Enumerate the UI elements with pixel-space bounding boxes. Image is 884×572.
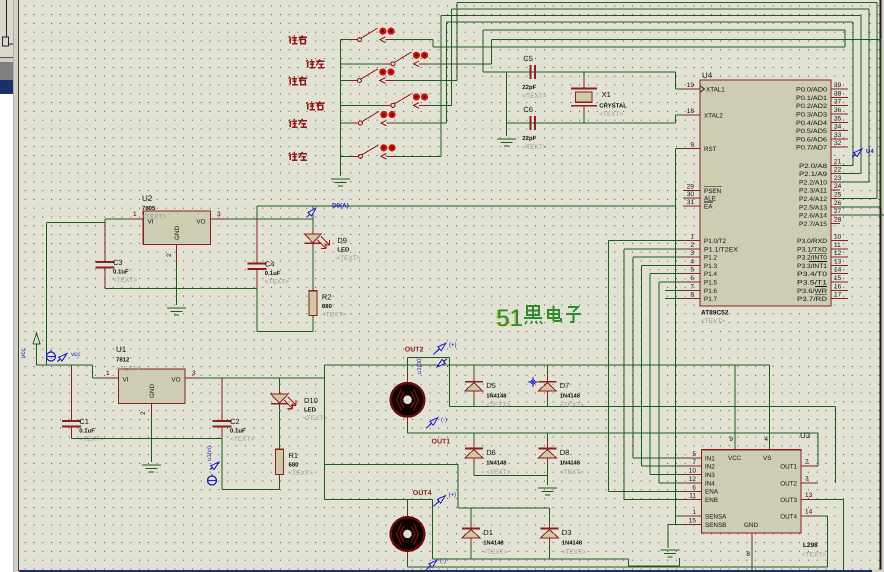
U3 pin 1 SENSA bbox=[683, 509, 701, 516]
left UI: navy block bbox=[0, 80, 13, 94]
capacitor C4 bbox=[247, 259, 289, 285]
svg-text:26: 26 bbox=[834, 200, 842, 207]
wire: OUT1 rail bbox=[407, 433, 817, 466]
svg-text:XTAL2: XTAL2 bbox=[704, 112, 723, 119]
svg-text:C4: C4 bbox=[265, 259, 275, 268]
svg-text:22pF: 22pF bbox=[522, 135, 536, 142]
svg-text:<TEXT>: <TEXT> bbox=[560, 469, 584, 476]
wire: switch ground bus vertical bbox=[340, 40, 342, 176]
svg-text:<TEXT>: <TEXT> bbox=[289, 470, 313, 477]
svg-text:(+): (+) bbox=[449, 492, 457, 499]
motor M1 bbox=[391, 374, 425, 425]
resistor R2 bbox=[309, 291, 346, 319]
wire: SENSA SENSB join bbox=[668, 516, 683, 548]
svg-text:P1.1/T2EX: P1.1/T2EX bbox=[704, 246, 739, 253]
svg-text:22pF: 22pF bbox=[522, 84, 536, 91]
U3 pin 4 VS bbox=[764, 436, 769, 450]
U4 pin 27 P2.6/A14 bbox=[799, 208, 842, 220]
svg-text:1N4148: 1N4148 bbox=[486, 460, 507, 467]
svg-text:P2.1/A9: P2.1/A9 bbox=[799, 171, 828, 178]
svg-text:P0.0/AD0: P0.0/AD0 bbox=[796, 87, 828, 94]
capacitor C1 bbox=[62, 417, 104, 443]
svg-text:7: 7 bbox=[690, 283, 694, 290]
U4 pin 4 P1.3 bbox=[683, 258, 717, 270]
svg-text:P3.5/T1: P3.5/T1 bbox=[797, 280, 828, 287]
svg-text:1N4148: 1N4148 bbox=[486, 393, 507, 400]
U1 pin 1 bbox=[101, 370, 118, 378]
wire: U1 gnd down bbox=[151, 416, 153, 462]
svg-text:2: 2 bbox=[166, 253, 173, 257]
U3 pin 15 SENSB bbox=[683, 518, 701, 525]
capacitor C3 bbox=[96, 258, 138, 284]
svg-text:39: 39 bbox=[834, 82, 842, 89]
wire: U3 GND down bbox=[751, 546, 753, 571]
U4 pin 7 P1.6 bbox=[683, 283, 717, 295]
wire: 5V rail to EA pin31 bbox=[257, 205, 676, 207]
svg-text:16: 16 bbox=[834, 283, 842, 290]
svg-text:0.1uF: 0.1uF bbox=[265, 270, 281, 277]
U1 pin 3 bbox=[185, 370, 202, 378]
svg-text:C6: C6 bbox=[523, 105, 533, 114]
probe circle near vcc bbox=[46, 350, 55, 361]
probe arrow OUT3 bbox=[426, 560, 437, 570]
svg-text:9: 9 bbox=[690, 142, 694, 149]
ground under D6/D8 bbox=[538, 488, 557, 495]
svg-text:VO: VO bbox=[171, 377, 180, 384]
wire: D1 leads bbox=[470, 508, 472, 529]
svg-text:<TEXT>: <TEXT> bbox=[142, 214, 166, 221]
switch K5 (row5) bbox=[341, 111, 447, 126]
wire: P1.0 to U3 bbox=[609, 241, 683, 492]
probe arrow vcc bbox=[57, 354, 67, 362]
svg-text:11: 11 bbox=[834, 242, 841, 249]
U3 pin 12 IN4 bbox=[683, 476, 701, 483]
ground under U1 bbox=[142, 465, 161, 472]
svg-text:VS: VS bbox=[763, 455, 771, 462]
svg-text:D1: D1 bbox=[483, 528, 493, 537]
svg-text:0.1uF: 0.1uF bbox=[230, 428, 246, 435]
wire: OUT2 jog over rail bbox=[407, 358, 449, 407]
wire: D1-D3 bottom rail bbox=[433, 558, 680, 566]
svg-text:D7: D7 bbox=[560, 381, 570, 390]
svg-text:18: 18 bbox=[687, 108, 695, 115]
U3 pin 8 GND bbox=[746, 533, 752, 558]
svg-text:4: 4 bbox=[764, 436, 768, 443]
svg-text:<TEXT>: <TEXT> bbox=[265, 278, 289, 285]
svg-text:D5: D5 bbox=[486, 381, 496, 390]
svg-text:AT89C52: AT89C52 bbox=[701, 310, 729, 317]
svg-text:ALE: ALE bbox=[704, 196, 716, 203]
svg-text:D3: D3 bbox=[562, 528, 572, 537]
U4 pin 9 RST bbox=[683, 142, 717, 154]
svg-text:P1.0/T2: P1.0/T2 bbox=[704, 238, 727, 245]
U4 pin 15 P3.5/T1 bbox=[797, 275, 848, 287]
wire: +12V motor rail bbox=[324, 364, 769, 366]
probe arrow OUT1 bbox=[426, 418, 438, 429]
wire: 12V riser x=324 bbox=[323, 365, 325, 499]
svg-text:D9: D9 bbox=[337, 236, 347, 245]
svg-text:9: 9 bbox=[729, 436, 733, 443]
U4 pin 39 P0.0/AD0 bbox=[796, 82, 848, 94]
probe arrow at D9 net bbox=[307, 208, 316, 217]
svg-text:<TEXT>: <TEXT> bbox=[79, 436, 103, 443]
left UI: light gap bbox=[0, 58, 13, 62]
U4 pin 30 ALE bbox=[683, 191, 716, 203]
wire: P1.1 to U3 bbox=[624, 249, 683, 500]
svg-text:P1.6: P1.6 bbox=[704, 288, 717, 295]
svg-text:3: 3 bbox=[192, 370, 196, 377]
wire: D9 drop bbox=[312, 206, 314, 234]
U3 pin 6 ENA bbox=[683, 484, 701, 491]
ground for SENS bbox=[661, 550, 680, 557]
U4 pin 28 P2.7/A15 bbox=[799, 216, 842, 228]
svg-text:P0.5/AD5: P0.5/AD5 bbox=[796, 128, 828, 135]
U4 pin 16 P3.6/WR bbox=[797, 283, 848, 295]
terminal VCC arrow bbox=[33, 333, 40, 365]
svg-text:19: 19 bbox=[687, 82, 695, 89]
ground for C5/C6 bbox=[497, 139, 516, 146]
svg-text:680: 680 bbox=[289, 462, 300, 469]
svg-text:vcc: vcc bbox=[71, 351, 80, 358]
svg-text:51: 51 bbox=[497, 305, 524, 332]
svg-text:13: 13 bbox=[834, 258, 842, 265]
svg-text:25: 25 bbox=[834, 192, 842, 199]
svg-text:<TEXT>: <TEXT> bbox=[701, 318, 725, 325]
svg-text:3: 3 bbox=[805, 476, 809, 483]
svg-text:u1(vi): u1(vi) bbox=[206, 446, 213, 461]
U4 pin 25 P2.4/A12 bbox=[799, 192, 842, 204]
wire: cross rail to D1/D3 bbox=[324, 465, 549, 508]
svg-text:1: 1 bbox=[133, 211, 137, 218]
svg-text:P1.5: P1.5 bbox=[704, 280, 717, 287]
svg-text:17: 17 bbox=[834, 292, 842, 299]
diode D6 bbox=[465, 441, 483, 466]
svg-text:L298: L298 bbox=[803, 542, 818, 549]
wire: P1.3 to U3 bbox=[642, 265, 684, 466]
svg-text:P1.4: P1.4 bbox=[704, 271, 717, 278]
U4 pin 34 P0.5/AD5 bbox=[796, 124, 848, 136]
svg-text:P0.2/AD2: P0.2/AD2 bbox=[796, 103, 828, 110]
U4 pin 33 P0.6/AD6 bbox=[796, 132, 848, 144]
wire: row6 to P2.1 nest bbox=[441, 16, 861, 174]
svg-text:u1(00): u1(00) bbox=[416, 357, 423, 374]
svg-text:<TEXT>: <TEXT> bbox=[113, 277, 137, 284]
U3 pin 10 IN3 bbox=[683, 468, 701, 475]
svg-text:SENSB: SENSB bbox=[705, 522, 726, 529]
svg-text:EA: EA bbox=[704, 203, 713, 210]
svg-text:28: 28 bbox=[834, 216, 842, 223]
svg-text:P3.7/RD: P3.7/RD bbox=[797, 296, 828, 303]
diode D1 bbox=[462, 521, 480, 546]
labels D3 bbox=[562, 528, 586, 556]
svg-text:ENB: ENB bbox=[705, 497, 718, 504]
probe circle left mid bbox=[208, 474, 217, 485]
svg-text:SENSA: SENSA bbox=[705, 514, 727, 521]
svg-text:7: 7 bbox=[692, 459, 696, 466]
wire: U2 VO to C4/D9 bbox=[228, 206, 313, 219]
svg-text:PSEN: PSEN bbox=[704, 188, 722, 195]
svg-text:P2.5/A13: P2.5/A13 bbox=[799, 204, 828, 211]
svg-text:X1: X1 bbox=[602, 90, 611, 99]
driver U3 L298 body bbox=[701, 431, 826, 559]
U4 pin 18 XTAL2 bbox=[683, 108, 723, 120]
svg-text:P3.4/T0: P3.4/T0 bbox=[797, 271, 828, 278]
wire: C6 net XTAL2 bbox=[507, 115, 683, 123]
diode D3 bbox=[541, 521, 559, 546]
svg-text:<TEXT>: <TEXT> bbox=[522, 93, 546, 100]
diode D8 bbox=[538, 441, 556, 466]
svg-text:CRYSTAL: CRYSTAL bbox=[599, 103, 627, 110]
svg-text:10: 10 bbox=[689, 468, 697, 475]
labels D6 bbox=[486, 448, 510, 476]
label 往右 switch K3 bbox=[289, 76, 307, 84]
wire: P1.4 to U3 bbox=[650, 274, 683, 475]
svg-text:0.1uF: 0.1uF bbox=[79, 428, 95, 435]
U4 pin 8 P1.7 bbox=[683, 292, 717, 304]
svg-text:D9(A): D9(A) bbox=[332, 203, 349, 210]
svg-text:1: 1 bbox=[106, 370, 110, 377]
wire: D9 cathode to R2 bbox=[312, 250, 314, 291]
svg-text:<TEXT>: <TEXT> bbox=[322, 312, 346, 319]
labels D8 bbox=[560, 448, 584, 476]
svg-text:GND: GND bbox=[149, 384, 156, 398]
U4 pin 23 P2.2/A10 bbox=[799, 175, 842, 187]
svg-text:<TEXT>: <TEXT> bbox=[486, 469, 510, 476]
svg-text:IN4: IN4 bbox=[705, 480, 715, 487]
wire: vcc feed with jog to U1 pin1 bbox=[37, 365, 102, 378]
svg-text:D6: D6 bbox=[486, 448, 496, 457]
wire: RST riser down to SENSA bbox=[675, 149, 683, 517]
U3 pin 7 IN2 bbox=[683, 459, 701, 466]
wire: U1 VO rail bbox=[202, 377, 324, 379]
svg-text:P0.4/AD4: P0.4/AD4 bbox=[796, 120, 828, 127]
svg-text:3: 3 bbox=[217, 211, 221, 218]
U3 output pin 13 bbox=[801, 492, 818, 500]
switch K3 (row3) bbox=[341, 68, 458, 83]
svg-text:3: 3 bbox=[690, 250, 694, 257]
svg-text:8: 8 bbox=[746, 551, 750, 558]
U4 pin 17 P3.7/RD bbox=[797, 292, 848, 304]
svg-text:OUT4: OUT4 bbox=[413, 490, 432, 497]
svg-text:1N4148: 1N4148 bbox=[483, 540, 504, 547]
ground for switch bus bbox=[331, 179, 350, 186]
svg-text:P1.7: P1.7 bbox=[704, 296, 717, 303]
U3 pin 9 VCC bbox=[729, 436, 735, 450]
wire: row4 to P2.2 nest bbox=[452, 9, 869, 182]
U4 pin 38 P0.1/AD1 bbox=[796, 90, 848, 102]
svg-text:35: 35 bbox=[834, 115, 842, 122]
wire: row5 to P2.0 nest bbox=[447, 22, 854, 165]
svg-text:1N4148: 1N4148 bbox=[560, 393, 581, 400]
svg-text:OUT3: OUT3 bbox=[780, 497, 797, 504]
labels D5 bbox=[486, 381, 510, 409]
svg-text:29: 29 bbox=[687, 184, 695, 191]
mcu U4 AT89C52 body bbox=[700, 71, 831, 325]
left UI: white column bbox=[0, 94, 13, 572]
switch K2 (row2) bbox=[341, 52, 492, 67]
svg-text:OUT4: OUT4 bbox=[780, 514, 797, 521]
wire: D8 leads bbox=[546, 433, 548, 449]
U4 pin 12 P3.2/INT0 bbox=[797, 250, 848, 262]
svg-text:U4: U4 bbox=[702, 71, 713, 80]
U4 pin 31 EA bbox=[683, 199, 713, 211]
crystal X1 bbox=[571, 72, 627, 123]
svg-text:5: 5 bbox=[692, 451, 696, 458]
svg-text:33: 33 bbox=[834, 132, 842, 139]
wire: D7 leads bbox=[546, 365, 548, 381]
U4 pin 19 XTAL1 bbox=[683, 82, 725, 94]
svg-text:P2.4/A12: P2.4/A12 bbox=[799, 196, 828, 203]
left UI: grey block bbox=[0, 62, 13, 80]
svg-text:VO: VO bbox=[196, 219, 205, 226]
svg-text:<TEXT>: <TEXT> bbox=[599, 111, 623, 118]
svg-text:6: 6 bbox=[692, 484, 696, 491]
blue cross marker bbox=[528, 377, 538, 387]
U4 pin 36 P0.3/AD3 bbox=[796, 107, 848, 119]
motor M2 bbox=[391, 509, 425, 560]
U3 output pin 3 bbox=[801, 476, 818, 484]
labels D7 bbox=[560, 381, 584, 409]
svg-text:<TEXT>: <TEXT> bbox=[802, 552, 826, 559]
svg-text:12: 12 bbox=[689, 476, 697, 483]
svg-text:U3: U3 bbox=[800, 431, 811, 440]
svg-text:13: 13 bbox=[805, 492, 813, 499]
svg-text:OUT2: OUT2 bbox=[780, 480, 797, 487]
wire: D10 to R1 bbox=[279, 411, 281, 450]
svg-text:24: 24 bbox=[834, 183, 842, 190]
label 往右 switch K1 bbox=[289, 35, 307, 43]
svg-text:7805: 7805 bbox=[142, 205, 156, 212]
U1 pin 2 GND bbox=[140, 404, 152, 417]
svg-text:P0.1/AD1: P0.1/AD1 bbox=[796, 95, 828, 102]
svg-text:2: 2 bbox=[805, 459, 809, 466]
svg-text:<TEXT>: <TEXT> bbox=[560, 402, 584, 409]
switch K4 (row4) bbox=[341, 93, 452, 108]
svg-text:14: 14 bbox=[834, 267, 842, 274]
capacitor C6 bbox=[522, 105, 546, 151]
svg-text:VI: VI bbox=[123, 377, 129, 384]
svg-text:R2: R2 bbox=[322, 293, 332, 302]
svg-text:(-): (-) bbox=[441, 417, 447, 424]
svg-text:vcc: vcc bbox=[20, 348, 27, 359]
wire: gnd rail C1-C2 bbox=[71, 438, 222, 440]
svg-text:RST: RST bbox=[704, 146, 717, 153]
svg-text:OUT1: OUT1 bbox=[432, 439, 451, 446]
left UI: overview pane corner bbox=[0, 0, 13, 58]
svg-text:4: 4 bbox=[690, 258, 694, 265]
svg-text:15: 15 bbox=[834, 275, 842, 282]
wire: P1.6 stub bbox=[665, 289, 683, 291]
wire: row2 up-over to P2.6 bbox=[492, 40, 881, 207]
svg-text:37: 37 bbox=[834, 99, 842, 106]
svg-text:12: 12 bbox=[834, 250, 842, 257]
U4 pin 32 P0.7/AD7 bbox=[796, 140, 848, 152]
wire: gnd rail down to R1 foot bbox=[222, 439, 280, 490]
LED D10 drop bbox=[279, 378, 281, 394]
svg-text:GND: GND bbox=[744, 522, 758, 529]
resistor R1 bbox=[276, 449, 313, 477]
LED D10 bbox=[271, 387, 327, 422]
svg-text:IN3: IN3 bbox=[705, 472, 715, 479]
svg-text:<TEXT>: <TEXT> bbox=[230, 436, 254, 443]
label 往左 switch K6 bbox=[289, 152, 307, 160]
watermark 51heidianzi bbox=[495, 305, 581, 332]
wire: U3 VS riser bbox=[769, 365, 771, 448]
wire: left vcc riser bbox=[46, 222, 48, 365]
svg-text:XTAL1: XTAL1 bbox=[706, 87, 725, 94]
svg-text:VI: VI bbox=[148, 219, 154, 226]
svg-text:7812: 7812 bbox=[116, 357, 130, 364]
svg-text:1: 1 bbox=[690, 234, 694, 241]
svg-text:2: 2 bbox=[140, 411, 147, 415]
capacitor C2 bbox=[213, 417, 255, 443]
U2 pin 2 GND bbox=[166, 245, 176, 264]
svg-text:31: 31 bbox=[687, 199, 695, 206]
wire: gnd rail C3-C4 bbox=[105, 288, 257, 290]
svg-text:38: 38 bbox=[834, 90, 842, 97]
switch K6 (row6) bbox=[341, 144, 442, 159]
svg-text:P3.3/INT1: P3.3/INT1 bbox=[797, 263, 828, 270]
wire: R1 foot bbox=[279, 475, 281, 490]
svg-text:P2.2/A10: P2.2/A10 bbox=[799, 179, 828, 186]
U4 pin 5 P1.4 bbox=[683, 267, 717, 279]
U4 pin 24 P2.3/A11 bbox=[799, 183, 842, 195]
ground under U2 bbox=[167, 308, 186, 315]
svg-text:P2.0/A8: P2.0/A8 bbox=[799, 163, 828, 170]
wire: R2 to gnd rail loop bbox=[257, 289, 313, 332]
svg-text:1N4148: 1N4148 bbox=[562, 540, 583, 547]
svg-text:14: 14 bbox=[805, 509, 813, 516]
capacitor C2 with leads bbox=[221, 378, 223, 438]
svg-text:22: 22 bbox=[834, 167, 842, 174]
svg-text:U2: U2 bbox=[142, 194, 153, 203]
wire: OUT4 rail to motor2 bbox=[324, 499, 432, 559]
wire: C5 net XTAL1 bbox=[483, 72, 683, 89]
svg-text:IN1: IN1 bbox=[705, 456, 715, 463]
wire: D5 leads bbox=[473, 365, 475, 381]
capacitor C5 bbox=[522, 54, 546, 100]
U4 pin 35 P0.4/AD4 bbox=[796, 115, 848, 127]
svg-text:6: 6 bbox=[690, 275, 694, 282]
voltage regulator U2 7805 bbox=[142, 194, 211, 245]
wire: OUT2 rail bbox=[450, 407, 836, 483]
U4 pin 29 PSEN bbox=[683, 184, 722, 196]
svg-text:P0.6/AD6: P0.6/AD6 bbox=[796, 136, 828, 143]
U4 pin 1 P1.0/T2 bbox=[683, 234, 727, 246]
U4 pin 14 P3.4/T0 bbox=[797, 267, 848, 279]
svg-text:VCC: VCC bbox=[728, 455, 742, 462]
svg-text:OUT1: OUT1 bbox=[780, 464, 797, 471]
svg-text:C2: C2 bbox=[230, 417, 240, 426]
left UI: grey gutter bbox=[13, 0, 19, 572]
svg-text:15: 15 bbox=[689, 518, 697, 525]
svg-text:<TEXT>: <TEXT> bbox=[522, 144, 546, 151]
wire: D6-D8 gnd rail bbox=[474, 476, 548, 485]
probe arrow left mid bbox=[210, 462, 219, 470]
svg-text:11: 11 bbox=[689, 493, 696, 500]
svg-text:OUT2: OUT2 bbox=[405, 347, 424, 354]
U4 pin 21 P2.0/A8 bbox=[799, 158, 842, 170]
U4 pin 6 P1.5 bbox=[683, 275, 717, 287]
U4 pin 26 P2.5/A13 bbox=[799, 200, 842, 212]
svg-text:U1: U1 bbox=[116, 345, 127, 354]
bottom status bar bbox=[19, 570, 872, 572]
svg-text:2: 2 bbox=[690, 242, 694, 249]
wire: C5-C6 left leg to ground bbox=[506, 72, 508, 136]
U4 pin 22 P2.1/A9 bbox=[799, 167, 842, 179]
svg-text:P2.3/A11: P2.3/A11 bbox=[799, 188, 828, 195]
svg-text:(+): (+) bbox=[449, 342, 457, 349]
